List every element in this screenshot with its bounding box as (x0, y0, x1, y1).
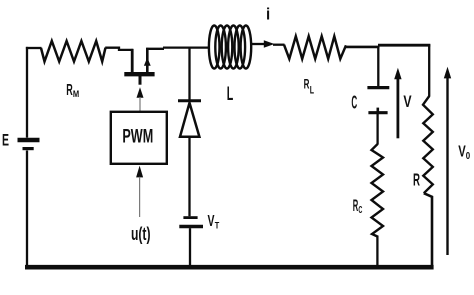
arrowhead from PWM to transistor gate (137, 87, 144, 98)
svg-text:u(t): u(t) (131, 224, 151, 244)
voltage arrow V0 line (446, 78, 448, 255)
transistor Q1 gate stub below bar (139, 76, 142, 85)
wire capacitor branch vertical from top rail (377, 46, 379, 86)
current arrow i head (264, 40, 275, 47)
PWM block U1 (111, 112, 167, 164)
diode D1 triangle (180, 103, 199, 137)
wire from capacitor down to R_C (376, 114, 378, 145)
svg-text:R: R (413, 170, 420, 190)
bottom rail wire (ground return) (25, 265, 434, 270)
wire from R_C down to bottom rail (376, 236, 378, 269)
wire from R_M to transistor drain corner (105, 48, 133, 50)
svg-text:M: M (73, 89, 79, 100)
source V_T short plate (183, 216, 197, 219)
svg-text:R: R (304, 77, 310, 92)
wire top rail from diode junction to inductor (163, 46, 210, 48)
wire right vertical from top corner down to R (428, 44, 430, 96)
transistor Q1 arrowhead on right lead (144, 58, 151, 66)
arrowhead from u(t) into PWM bottom (136, 166, 143, 178)
wire from capacitor junction to right top corner (378, 44, 430, 47)
wire from diode anode down to V_T (188, 137, 190, 216)
resistor R_C zigzag (372, 144, 384, 237)
svg-text:V: V (403, 92, 412, 111)
voltage arrow V line (396, 78, 399, 138)
thin control wire from PWM box top (139, 97, 141, 111)
wire from V_T down to bottom rail (189, 228, 191, 268)
battery E short plate (23, 147, 34, 150)
svg-text:R: R (66, 82, 73, 99)
svg-text:E: E (2, 132, 9, 150)
voltage arrow V0 head (444, 67, 451, 79)
capacitor C top plate (367, 86, 389, 89)
wire transistor left lead vertical down to bar (131, 49, 134, 73)
thin control wire from u(t) up to PWM (139, 177, 141, 217)
resistor R_M zigzag (41, 41, 106, 62)
wire from battery E down to bottom rail (26, 151, 28, 269)
inductor L coil (209, 26, 251, 69)
wire left vertical from top corner down to battery E (26, 47, 28, 138)
svg-text:L: L (227, 84, 234, 105)
capacitor C bottom plate tick (376, 108, 379, 112)
diode D1 cathode bar (178, 99, 201, 102)
transistor Q1 right lead vertical to top wire (146, 48, 149, 73)
wire from R down to bottom rail (424, 193, 432, 268)
wire from inductor to current arrow (251, 43, 266, 45)
resistor R zigzag (423, 96, 433, 193)
svg-text:L: L (310, 84, 314, 96)
wire top rail from transistor to diode junction (146, 48, 164, 50)
source V_T long plate (179, 225, 203, 229)
svg-text:i: i (266, 5, 270, 23)
svg-text:C: C (358, 205, 362, 216)
wire from R_L to capacitor junction (346, 46, 380, 49)
wire diode branch vertical from top rail (188, 47, 190, 100)
capacitor C bottom plate (368, 111, 387, 114)
svg-text:T: T (215, 220, 220, 230)
voltage arrow V head (394, 68, 401, 79)
svg-text:0: 0 (466, 151, 471, 162)
wire top-left horizontal from E to R_M (26, 47, 42, 49)
svg-text:PWM: PWM (122, 125, 153, 147)
svg-text:C: C (351, 92, 357, 113)
battery E long plate (18, 138, 40, 142)
resistor R_L zigzag (284, 36, 346, 59)
transistor Q1 channel bar (124, 72, 154, 76)
wire from arrow to R_L (273, 44, 285, 46)
